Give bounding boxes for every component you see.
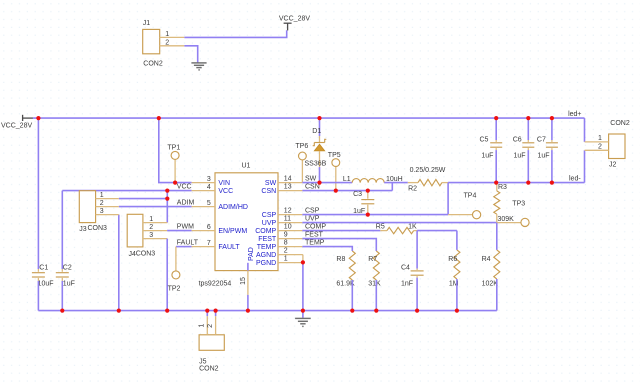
svg-text:1: 1 [165, 31, 169, 38]
svg-text:TP2: TP2 [168, 285, 181, 292]
svg-text:102K: 102K [482, 280, 499, 287]
junction J3 pin3/bottom rail [117, 309, 121, 313]
wire C2 to VCC line [61, 191, 63, 269]
svg-text:10: 10 [284, 224, 292, 231]
label R4 [482, 256, 491, 263]
wire R8 to bottom rail [351, 280, 353, 311]
svg-text:6: 6 [207, 224, 211, 231]
wire ADIM (J3 pin2 to U1 pin5) [119, 206, 192, 208]
label C1 [39, 264, 48, 271]
wire rail to C6 [527, 118, 529, 140]
svg-text:C5: C5 [480, 136, 489, 143]
label R7 [368, 256, 377, 263]
ground (J1) [191, 63, 206, 70]
junction pad/bottom rail [246, 309, 250, 313]
svg-text:J3: J3 [79, 226, 87, 233]
svg-text:3: 3 [149, 232, 153, 239]
wire rail to C5 [495, 118, 497, 140]
svg-text:C1: C1 [39, 264, 48, 271]
net label VCC_28V (left) [1, 123, 32, 130]
wire C1 to bottom rail [37, 281, 39, 311]
svg-text:2: 2 [100, 200, 104, 207]
resistor R3 [494, 183, 500, 223]
junction J5 pin1/bottom rail [205, 309, 209, 313]
pin number 1 (U1) [284, 256, 288, 263]
pin 1 stub (J4) [143, 222, 167, 224]
svg-text:U1: U1 [242, 162, 251, 169]
pin number 15 (U1) [240, 277, 247, 285]
wire SW line [302, 182, 352, 184]
svg-text:9: 9 [284, 232, 288, 239]
wire COMP line [302, 230, 380, 232]
test point TP4 [448, 211, 481, 219]
wire R2 to led- rail [448, 182, 584, 184]
label C7 [537, 136, 546, 143]
connector J4 box [127, 214, 143, 247]
label TP4 [464, 192, 477, 199]
svg-text:CON2: CON2 [199, 365, 219, 372]
wire R5 to R6 [417, 230, 457, 232]
svg-text:1nF: 1nF [401, 280, 413, 287]
junction ground/bottom rail [301, 309, 305, 313]
svg-text:R2: R2 [408, 186, 417, 193]
pin name VIN [218, 180, 230, 187]
junction C6/led- rail [526, 181, 530, 185]
junction D1/rail [317, 116, 321, 120]
svg-text:2: 2 [165, 39, 169, 46]
svg-text:1: 1 [149, 216, 153, 223]
svg-text:COMP: COMP [305, 224, 326, 231]
label 1uF (C2) [63, 280, 75, 287]
wire FAULT (U1 pin7) [176, 246, 192, 248]
resistor R8 [349, 251, 355, 280]
svg-text:UVP: UVP [262, 220, 277, 227]
svg-text:TP6: TP6 [295, 143, 308, 150]
svg-text:1: 1 [598, 135, 602, 142]
svg-text:EN/PWM: EN/PWM [218, 228, 247, 235]
resistor R6 [454, 250, 460, 279]
pin number 2 (J2) [598, 144, 602, 151]
wire J1 pin2 to ground [184, 46, 197, 63]
wire PWM (J4 pin2 to U1 pin6) [167, 230, 192, 232]
wire FEST line [302, 239, 376, 251]
pin name COMP [255, 228, 276, 235]
pin number 9 (U1) [284, 232, 288, 239]
label 61.9K (R8) [336, 280, 355, 287]
svg-text:VIN: VIN [218, 180, 230, 187]
svg-text:1: 1 [100, 192, 104, 199]
label R3 [498, 184, 507, 191]
junction R8/bottom rail [350, 309, 354, 313]
label C2 [63, 264, 72, 271]
wire C2 to bottom rail [61, 281, 63, 311]
wire C7 to led- rail [551, 150, 553, 183]
label C3 [353, 191, 362, 198]
label U1 [242, 162, 251, 169]
pin 9 stub FEST (U1) [278, 238, 302, 240]
net label UVP [305, 216, 320, 223]
pin name ADIM/HD [218, 204, 248, 211]
pin 2 stub AGND (U1) [278, 254, 303, 256]
capacitor C1 [32, 269, 45, 281]
junction C4/bottom rail [415, 309, 419, 313]
svg-text:TEMP: TEMP [305, 240, 325, 247]
svg-text:10uF: 10uF [38, 280, 54, 287]
pin number 2 (J4) [149, 224, 153, 231]
label TP2 [168, 285, 181, 292]
capacitor C4 [411, 269, 424, 278]
label R2 [408, 186, 417, 193]
pin 6 stub EN/PWM (U1) [192, 230, 215, 232]
pin number 1 (J1) [165, 31, 169, 38]
resistor R7 [373, 251, 379, 280]
label CON2 (J1) [143, 61, 163, 68]
net label CSP [305, 208, 320, 215]
wire CSP line [302, 214, 448, 216]
svg-text:R5: R5 [376, 224, 385, 231]
pin number 11 (U1) [284, 216, 291, 223]
capacitor C5 [490, 140, 502, 150]
label 10uF [38, 280, 54, 287]
net label COMP [305, 224, 326, 231]
pin 2 stub (J4) [143, 230, 167, 232]
svg-text:3: 3 [207, 176, 211, 183]
svg-text:1uF: 1uF [538, 153, 550, 160]
pin name EN/PWM [218, 228, 247, 235]
net label led- [569, 175, 581, 182]
pin number 2 (J1) [165, 39, 169, 46]
wire C5 to led- rail [495, 150, 497, 183]
svg-text:D1: D1 [312, 128, 321, 135]
label 102K (R4) [482, 280, 499, 287]
svg-text:led-: led- [569, 175, 581, 182]
label CON2 (J2) [610, 120, 630, 127]
junction C1/rail [36, 116, 40, 120]
wire bottom rail to J5 pin2 [215, 311, 217, 317]
svg-text:led+: led+ [568, 111, 581, 118]
label J4 [129, 251, 137, 258]
svg-text:R7: R7 [368, 256, 377, 263]
svg-text:CON3: CON3 [88, 225, 108, 232]
svg-text:VCC: VCC [218, 188, 233, 195]
pin name PAD [248, 247, 255, 261]
svg-text:VCC: VCC [177, 184, 192, 191]
junction R6/bottom rail [455, 309, 459, 313]
wire C6 to led- rail [527, 150, 529, 183]
label tps922054 [199, 280, 232, 287]
test point TP2 [172, 247, 180, 279]
connector J2 box [609, 134, 625, 159]
label C4 [401, 265, 410, 272]
label CON3 (J3) [88, 225, 108, 232]
svg-text:R8: R8 [336, 256, 345, 263]
pin name AGND [256, 252, 276, 259]
svg-text:ADIM/HD: ADIM/HD [218, 204, 248, 211]
connector J5 box [199, 335, 224, 351]
pad pin 15 stub (U1) [247, 263, 249, 295]
wire PGND to bottom rail [302, 263, 304, 311]
label CON3 (J4) [136, 250, 156, 257]
pin 3 stub (J3) [96, 214, 119, 216]
label J3 [79, 226, 87, 233]
wire R6 to bottom rail [456, 279, 458, 311]
label D1 [312, 128, 321, 135]
junction C3/CSN [366, 189, 370, 193]
svg-text:2: 2 [149, 224, 153, 231]
wire L1 to R2 [384, 182, 408, 184]
svg-text:2: 2 [207, 324, 214, 328]
label 1uF (C7) [538, 153, 550, 160]
pin number 3 (U1) [207, 176, 211, 183]
junction VIN branch/rail [157, 116, 161, 120]
svg-text:UVP: UVP [305, 216, 320, 223]
pin number 2 (U1) [284, 248, 288, 255]
svg-text:C4: C4 [401, 265, 410, 272]
wire J3 pin1 to VCC branch [119, 198, 168, 200]
svg-text:TP3: TP3 [512, 200, 525, 207]
junction AGND/PGND [301, 260, 305, 264]
wire CSN line [302, 190, 392, 192]
svg-text:CON3: CON3 [136, 250, 156, 257]
svg-text:TP4: TP4 [464, 192, 477, 199]
svg-text:14: 14 [284, 176, 292, 183]
svg-text:1: 1 [199, 324, 206, 328]
net label CSN [305, 184, 320, 191]
resistor R5 [380, 227, 417, 233]
svg-text:J1: J1 [143, 20, 151, 27]
svg-text:1: 1 [284, 256, 288, 263]
power port VCC_28V (top) [284, 23, 292, 30]
pin 7 stub FAULT (U1) [192, 246, 215, 248]
label J5 [199, 358, 207, 365]
pin name CSP [262, 212, 277, 219]
svg-text:12: 12 [284, 208, 292, 215]
pin 13 stub CSN (U1) [278, 190, 302, 192]
wire VIN branch [159, 118, 192, 183]
net label PWM [177, 224, 194, 231]
pin number 13 (U1) [284, 184, 292, 191]
svg-text:4: 4 [207, 184, 211, 191]
wire TEMP line [302, 247, 352, 251]
pin number 5 (U1) [207, 200, 211, 207]
test point TP3 [497, 218, 529, 226]
svg-text:11: 11 [284, 216, 291, 223]
wire J1 pin1 to VCC_28V port [184, 30, 286, 37]
wire C4 to bottom rail [416, 278, 418, 311]
wire bottom rail to J5 pin1 [206, 311, 208, 317]
svg-text:J5: J5 [199, 358, 207, 365]
junction C6/rail [526, 116, 530, 120]
wire R6 top [456, 231, 458, 250]
label 309K (R3) [498, 216, 515, 223]
svg-text:3: 3 [100, 208, 104, 215]
pin 1 stub PGND (U1) [278, 262, 303, 264]
ground (main) [295, 318, 311, 326]
wire VCC line [62, 190, 191, 192]
pin name TEMP [257, 244, 277, 251]
label 0.25/0.25W [410, 167, 446, 174]
label J2 [609, 161, 617, 168]
label 1uF (C5) [481, 153, 493, 160]
pin number 3 (J3) [100, 208, 104, 215]
connector J1 box [143, 29, 160, 53]
test point TP1 [171, 151, 179, 182]
svg-text:AGND: AGND [256, 252, 276, 259]
pin name FAULT [218, 244, 240, 251]
svg-text:PGND: PGND [256, 260, 276, 267]
capacitor C6 [522, 140, 534, 150]
pin 2 stub (J5) [215, 316, 217, 335]
pin number 8 (U1) [284, 240, 288, 247]
svg-text:L1: L1 [343, 176, 351, 183]
pin number 1 (J2) [598, 135, 602, 142]
svg-text:PAD: PAD [248, 247, 255, 261]
label TP5 [328, 152, 341, 159]
pin name CSN [261, 188, 276, 195]
junction D1/SW [317, 181, 321, 185]
svg-text:FAULT: FAULT [218, 244, 240, 251]
svg-text:R3: R3 [498, 184, 507, 191]
label R6 [448, 256, 457, 263]
svg-text:0.25/0.25W: 0.25/0.25W [410, 167, 446, 174]
label TP3 [512, 200, 525, 207]
junction J5 pin2/bottom rail [214, 309, 218, 313]
svg-text:COMP: COMP [255, 228, 276, 235]
connector J3 box [79, 191, 95, 223]
pin name PGND [256, 260, 276, 267]
pin 2 stub (J1) [160, 45, 185, 47]
wire UVP to R4 [496, 223, 498, 250]
junction TP1/VIN [173, 181, 177, 185]
wire R2 down to CSP [447, 183, 449, 215]
svg-text:VCC_28V: VCC_28V [279, 16, 310, 23]
svg-text:CON2: CON2 [143, 61, 163, 68]
pin number 14 (U1) [284, 176, 292, 183]
svg-text:R6: R6 [448, 256, 457, 263]
label J1 [143, 20, 151, 27]
pin 2 stub (J2) [585, 149, 609, 151]
svg-text:FEST: FEST [305, 232, 324, 239]
junction J4 pin3/bottom rail [165, 309, 169, 313]
svg-text:CSP: CSP [305, 208, 320, 215]
junction J3 pin1/VCC branch [165, 197, 169, 201]
wire VCC_28V top rail [33, 117, 585, 119]
svg-text:1uF: 1uF [481, 153, 493, 160]
svg-text:SW: SW [265, 180, 277, 187]
label 1uF (C6) [514, 153, 526, 160]
pin name UVP [262, 220, 277, 227]
pin number 7 (U1) [207, 240, 211, 247]
svg-text:31K: 31K [368, 280, 381, 287]
pin 1 stub (J3) [96, 198, 119, 200]
svg-text:VCC_28V: VCC_28V [1, 123, 32, 130]
svg-text:TEMP: TEMP [257, 244, 277, 251]
pin number 4 (U1) [207, 184, 211, 191]
label SS36B [305, 161, 327, 168]
pin 4 stub VCC (U1) [192, 190, 215, 192]
label TP1 [167, 145, 180, 152]
label L1 [343, 176, 351, 183]
wire J3 pin3 to bottom rail [118, 215, 120, 311]
pin 3 stub VIN (U1) [192, 182, 215, 184]
wire R4 to bottom rail [496, 279, 498, 311]
svg-text:J2: J2 [609, 161, 617, 168]
test point TP6 [299, 152, 307, 183]
junction C2/bottom rail [60, 309, 64, 313]
diode D1 (schottky SS36B) [313, 136, 327, 167]
pin 11 stub UVP (U1) [278, 222, 302, 224]
pin number 1 (J5) [199, 324, 206, 328]
capacitor C3 [361, 191, 374, 215]
pin 2 stub (J3) [96, 206, 119, 208]
junction TP5/CSN [334, 189, 338, 193]
svg-text:FAULT: FAULT [177, 240, 199, 247]
svg-text:C7: C7 [537, 136, 546, 143]
svg-text:C2: C2 [63, 264, 72, 271]
wire rail to C1 [37, 118, 39, 269]
wire UVP line [302, 222, 496, 224]
wire VCC to J3/J4 branch [166, 191, 168, 223]
junction C7/rail [550, 116, 554, 120]
svg-text:SW: SW [305, 176, 317, 183]
net label FAULT [177, 240, 199, 247]
resistor R4 [494, 250, 500, 279]
wire rail to J2 pin1 [584, 118, 586, 142]
label 10uH [386, 176, 403, 183]
wire J4 pin3 to bottom rail [166, 239, 168, 311]
label 1nF (C4) [401, 280, 413, 287]
junction C3/CSP [366, 213, 370, 217]
wire CSN tee [391, 183, 393, 191]
wire rail to D1 [319, 118, 321, 136]
pin 14 stub SW (U1) [278, 182, 302, 184]
wire R5/C4 branch [416, 231, 418, 269]
svg-text:C6: C6 [513, 136, 522, 143]
pin 3 stub (J4) [143, 238, 167, 240]
svg-text:CON2: CON2 [610, 120, 630, 127]
pin number 2 (J5) [207, 324, 214, 328]
svg-text:13: 13 [284, 184, 292, 191]
junction R7/bottom rail [374, 309, 378, 313]
label 1K (R5) [408, 224, 417, 231]
pin number 6 (U1) [207, 224, 211, 231]
svg-text:15: 15 [240, 277, 247, 285]
pin 10 stub COMP (U1) [278, 230, 302, 232]
svg-text:1uF: 1uF [63, 280, 75, 287]
svg-text:R4: R4 [482, 256, 491, 263]
svg-text:tps922054: tps922054 [199, 280, 232, 287]
svg-text:TP5: TP5 [328, 152, 341, 159]
net label ADIM [177, 200, 195, 207]
inductor L1 [352, 179, 384, 183]
IC U1 box [215, 173, 278, 271]
wire D1 to SW line [319, 167, 321, 183]
label R8 [336, 256, 345, 263]
wire bottom ground rail [38, 310, 496, 312]
label R5 [376, 224, 385, 231]
svg-text:CSP: CSP [262, 212, 277, 219]
pin 1 stub (J2) [585, 141, 609, 143]
net label VCC_28V (top) [279, 16, 310, 23]
pin number 2 (J3) [100, 200, 104, 207]
svg-text:5: 5 [207, 200, 211, 207]
wire led- to J2 pin2 [584, 150, 586, 182]
svg-text:2: 2 [284, 248, 288, 255]
svg-text:2: 2 [598, 144, 602, 151]
net label SW [305, 176, 317, 183]
pin name FEST [258, 236, 277, 243]
svg-text:1uF: 1uF [353, 208, 365, 215]
